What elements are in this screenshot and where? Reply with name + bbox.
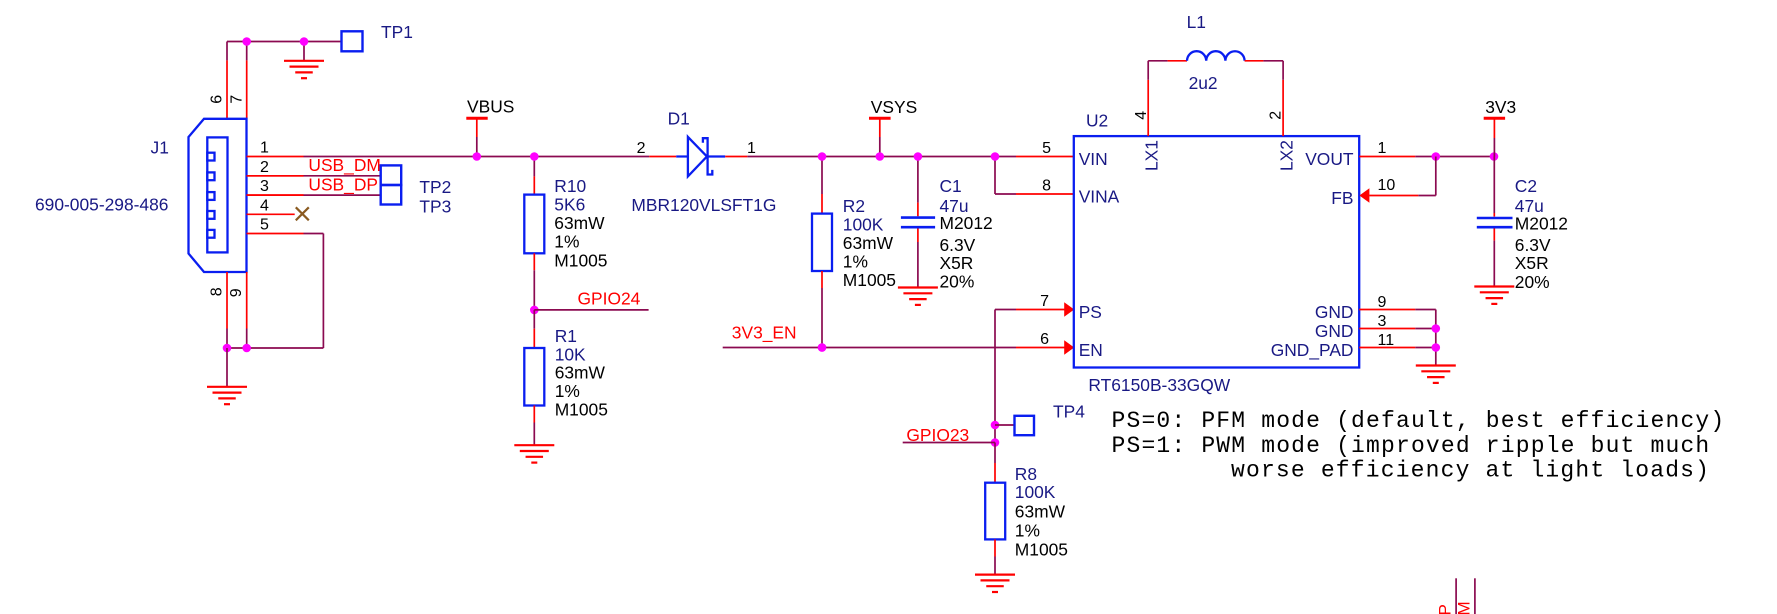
svg-text:worse efficiency at light load: worse efficiency at light loads): [1231, 458, 1710, 484]
svg-text:EN: EN: [1079, 340, 1103, 360]
svg-text:8: 8: [209, 287, 226, 296]
svg-text:GPIO23: GPIO23: [906, 425, 969, 445]
svg-text:GND: GND: [1315, 302, 1354, 322]
svg-text:R10: R10: [554, 176, 586, 196]
svg-text:1%: 1%: [555, 381, 580, 401]
svg-text:PS: PS: [1079, 302, 1102, 322]
svg-text:M1005: M1005: [554, 250, 607, 270]
svg-text:5K6: 5K6: [554, 194, 585, 214]
svg-text:M1005: M1005: [555, 399, 608, 419]
svg-text:C1: C1: [940, 176, 962, 196]
svg-text:2u2: 2u2: [1189, 73, 1218, 93]
svg-text:VINA: VINA: [1079, 186, 1120, 206]
svg-text:1%: 1%: [843, 252, 868, 272]
svg-text:USB_DM: USB_DM: [308, 155, 380, 175]
svg-text:7: 7: [228, 95, 245, 104]
svg-text:R1: R1: [555, 326, 577, 346]
svg-text:GND_PAD: GND_PAD: [1271, 340, 1354, 360]
svg-text:9: 9: [1378, 294, 1387, 311]
svg-text:C2: C2: [1515, 176, 1537, 196]
svg-text:63mW: 63mW: [555, 363, 606, 383]
svg-text:3V3_EN: 3V3_EN: [732, 323, 797, 343]
svg-text:1: 1: [260, 140, 269, 157]
svg-text:63mW: 63mW: [843, 233, 894, 253]
svg-text:MBR120VLSFT1G: MBR120VLSFT1G: [631, 195, 776, 215]
svg-text:1: 1: [747, 140, 756, 157]
svg-text:3: 3: [260, 178, 269, 195]
svg-text:9: 9: [228, 288, 245, 297]
svg-text:100K: 100K: [843, 215, 884, 235]
svg-text:TP1: TP1: [381, 22, 413, 42]
svg-text:6.3V: 6.3V: [1515, 235, 1551, 255]
svg-text:VOUT: VOUT: [1305, 149, 1354, 169]
svg-text:1%: 1%: [554, 232, 579, 252]
svg-text:USB_DP: USB_DP: [308, 175, 378, 195]
svg-text:P: P: [1435, 604, 1454, 614]
svg-text:X5R: X5R: [1515, 253, 1549, 273]
svg-text:LX2: LX2: [1276, 140, 1296, 171]
svg-text:63mW: 63mW: [1015, 501, 1066, 521]
svg-text:10: 10: [1378, 177, 1396, 194]
svg-text:VIN: VIN: [1079, 149, 1108, 169]
svg-text:2: 2: [637, 140, 646, 157]
svg-text:2: 2: [260, 159, 269, 176]
svg-text:7: 7: [1040, 293, 1049, 310]
svg-text:M: M: [1455, 601, 1474, 614]
svg-text:L1: L1: [1187, 12, 1206, 32]
svg-text:6: 6: [209, 95, 226, 104]
svg-text:2: 2: [1267, 111, 1284, 120]
svg-text:PS=0: PFM mode (default, best: PS=0: PFM mode (default, best efficiency…: [1112, 408, 1726, 434]
svg-text:PS=1: PWM mode (improved rippl: PS=1: PWM mode (improved ripple but much: [1112, 433, 1711, 459]
svg-text:6: 6: [1040, 331, 1049, 348]
svg-text:U2: U2: [1086, 111, 1108, 131]
svg-text:GPIO24: GPIO24: [578, 288, 641, 308]
svg-text:M1005: M1005: [1015, 539, 1068, 559]
svg-text:M1005: M1005: [843, 270, 896, 290]
svg-text:11: 11: [1378, 332, 1395, 349]
svg-text:X5R: X5R: [940, 253, 974, 273]
svg-text:8: 8: [1042, 178, 1051, 195]
svg-text:VSYS: VSYS: [871, 97, 917, 117]
svg-text:J1: J1: [151, 137, 169, 157]
svg-text:20%: 20%: [940, 271, 975, 291]
svg-text:GND: GND: [1315, 321, 1354, 341]
svg-text:FB: FB: [1331, 188, 1353, 208]
svg-text:VBUS: VBUS: [467, 97, 514, 117]
svg-text:M2012: M2012: [1515, 214, 1568, 234]
svg-text:100K: 100K: [1015, 482, 1056, 502]
svg-text:690-005-298-486: 690-005-298-486: [35, 195, 168, 215]
svg-text:TP4: TP4: [1053, 402, 1085, 422]
svg-text:5: 5: [1042, 140, 1051, 157]
svg-text:R2: R2: [843, 196, 865, 216]
svg-text:LX1: LX1: [1141, 140, 1161, 171]
svg-text:M2012: M2012: [940, 213, 993, 233]
svg-text:TP3: TP3: [419, 197, 451, 217]
svg-text:20%: 20%: [1515, 272, 1550, 292]
svg-text:4: 4: [260, 197, 269, 214]
svg-text:RT6150B-33GQW: RT6150B-33GQW: [1088, 375, 1230, 395]
svg-text:63mW: 63mW: [554, 213, 605, 233]
svg-text:1: 1: [1378, 140, 1387, 157]
svg-text:10K: 10K: [555, 344, 586, 364]
svg-text:1%: 1%: [1015, 520, 1040, 540]
svg-text:3: 3: [1378, 313, 1387, 330]
svg-text:R8: R8: [1015, 464, 1037, 484]
svg-text:5: 5: [260, 217, 269, 234]
svg-text:D1: D1: [668, 108, 690, 128]
svg-text:3V3: 3V3: [1485, 97, 1516, 117]
svg-text:TP2: TP2: [419, 177, 451, 197]
